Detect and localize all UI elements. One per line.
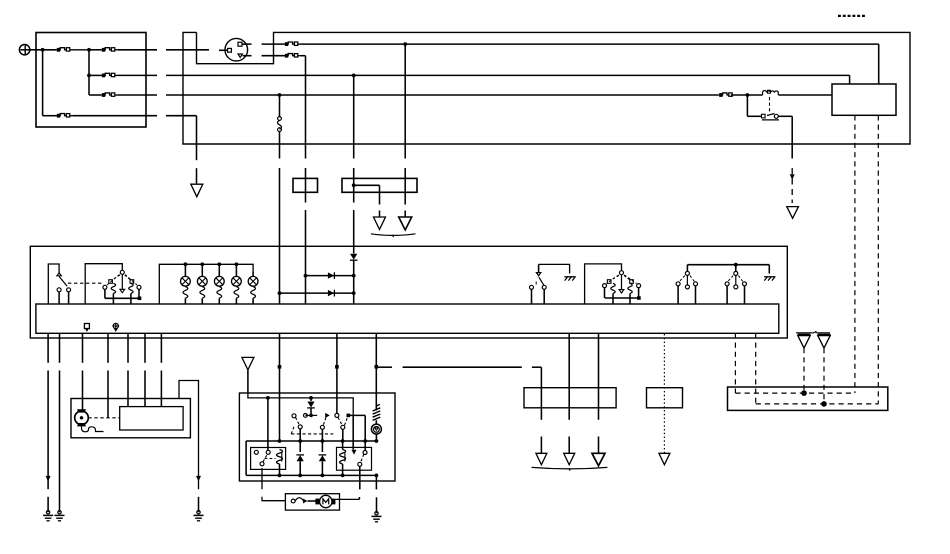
wire ignition ACC out [243,43,252,45]
lamp L2 feed [200,262,204,266]
S5b contacts [725,282,729,286]
relay K1 contacts [746,95,748,116]
S4 pivot [620,271,624,275]
washer pump motor [371,424,381,434]
relay L link dashed [265,458,276,460]
main harness box outline (top) [183,32,910,144]
motor breaker [291,499,295,503]
junction box (bottom right) [728,387,888,410]
ground G4 [375,512,378,515]
dashed net 2 [756,403,879,405]
junction row1/x405 [403,42,407,46]
blower motor [75,411,89,425]
diode net vertical x305 [305,246,307,304]
fuse F8 (row3 right) [719,93,722,97]
wire C2 branch to arrow [354,184,380,186]
resistor under L5 [251,287,256,299]
fuse F5 row4 [43,115,56,117]
off-page arrow A4 [564,453,575,465]
fuse F6 (row1 y44) [285,42,288,46]
wire ignition ON out [243,55,252,57]
wire relay R pivot down [359,466,361,489]
relay R box [337,447,372,470]
wire to relay node [731,94,763,96]
wire x305 below box [305,144,307,159]
wire to washer switch (horizontal) [376,366,392,368]
wiper motor box [285,494,339,510]
off-page arrow A1 [374,217,386,230]
relay R coil [342,441,344,450]
S2 pivot [120,270,124,274]
fuse F3 row2 [89,74,101,76]
S4 contacts [603,284,607,288]
park blade 2 [323,418,326,426]
wire relay L pivot down [262,468,285,501]
diode net vertical x353 [353,246,355,253]
strip pin P2 [113,323,118,328]
wire row1b to drop [301,55,306,57]
ignition switch [225,38,248,61]
wire diode row1 [306,275,354,277]
wire row2 out [118,74,157,76]
wire to C3 c [598,333,600,420]
park contact arrow [325,413,330,418]
bracket under arrows [532,467,608,469]
wire coil to module [778,94,832,96]
wire bus1 to relay L [267,398,269,450]
lamp bracket [159,264,253,304]
junction row2/x353.7 [352,74,356,78]
bracket left [48,264,59,304]
dotted wire through C4 [663,334,665,453]
wire washer sw drop [540,367,542,420]
off-page arrow (relay ground) [787,207,799,219]
S5a rays [680,276,685,282]
park contact c3 [335,413,339,417]
relay L contacts [254,450,258,454]
warning lamp L3 [214,276,224,286]
S2 wires to strip [112,294,114,305]
S2 contacts [103,285,107,289]
circuit breaker on x279 line [279,95,281,117]
wire contact row to relay R [352,415,354,449]
park switch contact row [305,414,317,416]
wire gnd1 drop [47,333,49,363]
off-page arrow A2 [399,217,412,230]
fuse F2 [89,49,101,51]
relay K1 link dashed [769,97,771,113]
connector box C3 [524,388,616,408]
relay L coil [277,450,283,465]
wire inner3 [160,333,162,363]
junction row3/breaker [278,93,282,97]
diode D1 down [350,254,357,260]
S5a pivot [685,271,689,275]
dashed wire from T2 [823,348,825,404]
wire pivot2 to bus2 [321,429,323,441]
legend dashed sample [838,15,867,17]
connector box C1 [293,178,318,192]
relay R pivot [358,462,362,466]
internal bus1 [248,393,353,415]
relay K1 coil [763,91,779,96]
switch S1 contacts [57,273,61,276]
control module box [832,84,896,115]
dashed wire from T1 [803,348,805,393]
wire pivot1 to bus2 [299,429,301,441]
incoming arrow to wiper box [242,357,254,370]
ground G2 [58,511,61,514]
diode D2 [328,272,334,278]
wiper feed wire 2 [336,333,338,413]
connector box C2 [342,178,417,192]
dashed wire strip to box d2 [755,333,757,404]
mech link dashed (park) [291,433,333,435]
module output dashed wire 2 [877,115,879,404]
wire row2 drop at right [849,75,851,84]
blower box [71,399,190,438]
power feed arrow T2 [816,332,831,334]
instrument panel box [30,246,787,338]
wire row2 long [166,74,850,76]
washer resistor [376,404,380,406]
internal bus2 [246,440,377,442]
S3 chassis ground [564,276,574,278]
wire battery feed node [36,49,56,51]
off-page arrow A5 [592,453,605,466]
ground G3 [197,511,200,514]
resistor under L1 [183,287,188,299]
lamp L1 feed [184,262,188,266]
wire battery drop to row4 [42,50,44,116]
connector box C4 [647,388,683,408]
wire relay drop to ground [791,116,793,158]
switch S3 bracket [539,264,570,273]
relay L box [251,448,286,470]
blower thermal element [82,425,104,432]
park contact c4 [347,414,351,418]
off-page arrow A3 [536,453,547,465]
relay R contact arrow [352,450,357,455]
arrowhead on ground wire [790,174,795,180]
S4 resistors [611,283,615,293]
wire diode row2 [280,292,354,294]
wire jog to ground G3 [179,381,199,490]
wire contact out [778,115,792,117]
park blade 3 [338,417,342,425]
wire F2 out [118,49,157,51]
resistor under L4 [234,287,239,299]
S4 rays dashed [607,275,619,284]
fuse box [36,33,146,128]
warning lamp L2 [197,276,207,286]
S5b rays [728,276,733,282]
dashed wire strip to box d1 [734,333,736,393]
battery B+ terminal [19,45,29,55]
junction inside C2 [352,183,356,187]
diode D3 [328,290,334,296]
wire node drop to row2/3 [88,50,90,95]
blower resistor box [120,407,183,430]
wires S1 to strip [58,292,60,304]
warning lamp L5 [248,276,258,286]
S5 chassis ground [768,265,770,274]
S3 contacts [530,285,534,289]
diode net vertical x279 [279,246,281,304]
fuse F1 [57,48,60,52]
wire into ignition switch [219,49,228,51]
wire x405 drop from row1 [404,44,406,158]
washer feed wire [375,333,377,410]
relay R contact circle [363,451,367,455]
node after F1 [87,48,91,52]
wire gnd2 drop [59,333,61,363]
park blade 1 [296,417,300,425]
wire x279 below box [279,144,281,159]
warning lamp L1 [181,276,191,286]
resistor under L2 [200,287,205,299]
wire x353 drop from row2 [353,75,355,158]
lamp L5 feed [252,272,254,277]
wire row4 to ground drop [166,115,197,117]
wire motor out [335,498,359,500]
diode D6 [321,441,323,452]
fuse F4 row3 [89,94,101,96]
relay L pivot [260,462,264,466]
diode D5 [299,441,301,452]
S2 contact rays dashed [107,275,120,286]
power feed arrow T1 [796,332,813,334]
fuse F7 (row1b y55.7) [285,54,288,58]
S3 blade [539,277,544,285]
off-page arrow A6 [659,453,670,465]
wiper motor assembly box [239,393,395,481]
blower link dashed [88,417,119,419]
internal ground bus [246,474,377,476]
off-page arrow (row4 ground) [191,184,203,197]
switch S5 bus [687,264,769,266]
connector strip [36,304,779,333]
S5b pivot [735,265,737,272]
lamp L4 feed [235,262,239,266]
S4 bus [604,288,606,298]
S2 bus [104,289,106,298]
wire inner1 [127,333,129,363]
wire pivot3 to bus2 [342,429,344,441]
wire row1 to right [301,43,879,45]
wiper switch S2 frame [85,264,122,304]
wire row3 out [118,94,157,96]
junction relay feed [746,93,750,97]
wire link feed [107,333,109,363]
mech link dashed S1-S2 [68,282,104,284]
wire inner2 [144,333,146,363]
wiper motor M [315,499,319,505]
wiper feed wire 1 [279,333,281,441]
bracket under arrows A1 A2 [371,234,416,236]
diode D4 (park) [310,398,312,401]
module output dashed wire 1 [854,115,856,393]
wire coil L to bus [279,464,281,475]
wire row1 drop at right [878,44,880,84]
wiper switch S4 frame [585,264,622,304]
wire row4 out [73,115,157,117]
wire washer gnd [375,475,377,489]
S4 wires to strip [612,294,614,305]
resistor under L3 [217,287,222,299]
ground G1 [46,511,49,514]
S5a contacts [676,282,680,286]
S2 resistors [111,283,115,293]
warning lamp L4 [232,276,242,286]
strip pin P1 [84,324,89,329]
wire c4 right branch [348,414,365,416]
lamp L3 feed [217,262,221,266]
dashed net 1 [735,392,855,394]
wire to C3 b [568,333,570,420]
wire motor feed [82,333,84,363]
relay R blade [361,454,364,462]
wire row3 long [166,94,280,96]
